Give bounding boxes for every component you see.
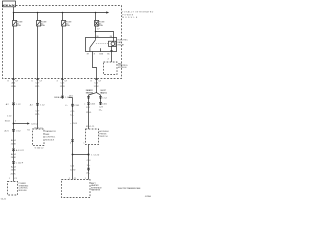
svg-text:HARNESS: HARNESS <box>91 189 101 192</box>
wire label fanlow <box>99 107 104 112</box>
wire col2 <box>37 79 39 130</box>
svg-text:12PK: 12PK <box>60 86 66 88</box>
wire relay coil to fan control module <box>111 52 113 63</box>
inline connector col1 C105 <box>6 103 22 106</box>
TIPM label text <box>122 11 154 20</box>
svg-text:4 -: 4 - <box>65 105 68 107</box>
relay coil <box>109 38 117 52</box>
wire label col1 lower <box>11 139 17 145</box>
svg-text:M 4-1 C1: M 4-1 C1 <box>86 126 95 128</box>
fuse F2 <box>37 13 39 21</box>
wire label nodeB lower <box>87 160 92 167</box>
svg-text:12DG: 12DG <box>86 112 92 114</box>
border pin col2 <box>32 79 43 83</box>
inline connector fanhigh A <box>87 96 89 99</box>
fuse F3 <box>62 13 64 21</box>
wire fan high branch <box>88 95 90 129</box>
svg-text:12PK: 12PK <box>94 86 100 88</box>
svg-text:CONTROL: CONTROL <box>45 137 56 139</box>
svg-text:1 C120: 1 C120 <box>91 155 100 157</box>
branch label fan high <box>86 89 94 94</box>
wire col3b <box>72 98 74 180</box>
svg-text:C105: C105 <box>74 105 80 107</box>
svg-text:FAN (LOW): FAN (LOW) <box>100 91 107 94</box>
svg-text:J02BA: J02BA <box>145 195 152 198</box>
wire label col1 lower2 <box>11 153 17 159</box>
wire fuse F1 to border pin <box>13 26 15 79</box>
svg-text:FAN (HIGH): FAN (HIGH) <box>86 91 94 94</box>
svg-text:s: s <box>83 142 84 144</box>
node col3b splice <box>72 154 74 156</box>
svg-text:20--: 20-- <box>86 172 90 174</box>
inline connector col1 D <box>12 161 24 164</box>
node bus-col4 <box>95 12 97 14</box>
svg-text:40A: 40A <box>17 24 21 27</box>
radiator fan control module box <box>33 129 45 146</box>
fan control module dashed box <box>104 62 118 75</box>
wire fan low branch <box>100 95 102 105</box>
relay bottom pin labels <box>87 52 111 60</box>
svg-text:G 104 C2: G 104 C2 <box>35 147 45 149</box>
branch label fan low <box>100 90 107 94</box>
AC switch caption <box>99 130 109 138</box>
RFCM caption <box>45 130 56 141</box>
relay pin 87 stub <box>100 48 102 51</box>
svg-text:20BK: 20BK <box>11 169 17 171</box>
node bus-col2 <box>37 12 39 14</box>
svg-text:50-21: 50-21 <box>1 198 7 200</box>
svg-text:30A: 30A <box>99 24 103 27</box>
wire label col4 circuit <box>94 83 100 88</box>
fan assembly caption <box>91 182 102 192</box>
svg-text:20BK: 20BK <box>11 144 17 146</box>
svg-text:+ C103: + C103 <box>70 123 78 125</box>
svg-text:MODULE: MODULE <box>122 17 138 19</box>
inline connector col3b B <box>71 139 73 142</box>
node bus-col3 <box>62 12 64 14</box>
node S104 <box>13 123 15 125</box>
power steering control module box <box>8 182 18 196</box>
bus arrow <box>106 11 109 13</box>
svg-text:87A: 87A <box>99 52 103 55</box>
svg-text:A 4-1 C2: A 4-1 C2 <box>16 149 25 152</box>
node A relay feed <box>95 31 97 33</box>
relay mechanical link <box>96 43 109 45</box>
inline connector fanhigh B <box>84 102 96 105</box>
wire node A to relay coil pin <box>96 32 114 38</box>
AC pressure switch box <box>86 129 99 145</box>
wire label col1 circuit <box>11 82 17 88</box>
svg-text:RELAY: RELAY <box>118 44 125 47</box>
svg-text:C 120 F: C 120 F <box>16 163 24 165</box>
svg-text:20BK: 20BK <box>11 174 17 176</box>
wire col1 upper <box>13 79 15 124</box>
svg-text:12RD: 12RD <box>70 169 76 171</box>
radiator fan assembly box <box>62 180 91 198</box>
inline connector col1 B <box>5 129 22 132</box>
inline connector nodeB <box>87 168 89 171</box>
svg-text:MODULE: MODULE <box>45 139 54 141</box>
svg-text:POWER: POWER <box>122 14 134 16</box>
wire from BATT box to bus <box>13 7 15 21</box>
svg-text:SWITCH: SWITCH <box>99 136 108 138</box>
wire label col1 lower3 <box>11 165 17 171</box>
wire col3b splice to AC node <box>73 154 89 156</box>
svg-text:40A: 40A <box>66 24 70 27</box>
wire fuse F2 to border pin <box>37 26 39 79</box>
inline connector col3 <box>54 96 70 99</box>
border pin col1 <box>8 79 19 83</box>
node bus-col1 <box>13 12 15 14</box>
fuse F1 <box>13 13 15 21</box>
relay K1 box <box>86 38 117 52</box>
svg-text:x: x <box>84 104 85 106</box>
wire AC switch to node B <box>88 145 90 155</box>
svg-text:C105: C105 <box>102 103 108 105</box>
svg-text:40A: 40A <box>41 24 45 27</box>
wire fuse F3 to connector <box>62 26 64 98</box>
inline connector col1 C <box>12 149 24 152</box>
svg-text:FAN: FAN <box>45 133 50 136</box>
border pin col3 <box>57 79 68 83</box>
svg-text:RADIATOR: RADIATOR <box>45 130 56 133</box>
fan control caption <box>118 62 129 69</box>
splice label S104 <box>5 115 17 122</box>
inline connector fanlow B <box>99 102 107 105</box>
wire col1 lower <box>13 124 15 182</box>
svg-text:20BK: 20BK <box>11 157 17 159</box>
inline connector fanlow A <box>99 96 107 99</box>
wire label col2 circuit <box>35 83 41 88</box>
wire label col3b <box>70 111 75 116</box>
wire label col3b lower <box>70 165 76 171</box>
wire relay pin87 to border (L jog) <box>93 52 97 79</box>
svg-text:MIKA HI: MIKA HI <box>54 96 62 99</box>
TIPM module dashed box <box>3 6 122 79</box>
svg-text:MODULE: MODULE <box>118 67 127 69</box>
svg-text:C105: C105 <box>90 104 96 106</box>
wire label col2 lower <box>35 110 41 115</box>
svg-text:12--: 12-- <box>87 165 91 167</box>
border pin col4 <box>91 79 102 83</box>
inline connector col3b <box>65 104 80 107</box>
wire label fanhigh <box>86 107 92 114</box>
wire label col3 circuit <box>60 83 66 88</box>
svg-text:1 ELECTRIC TRANSFER CASE: 1 ELECTRIC TRANSFER CASE <box>118 187 142 190</box>
pin label PSCM <box>9 178 18 180</box>
svg-text:TOTALLY INTEGRATED: TOTALLY INTEGRATED <box>122 11 154 14</box>
wire col3b start tick <box>69 97 73 99</box>
inline connector col2 <box>30 103 46 106</box>
svg-text:12--: 12-- <box>99 109 103 111</box>
svg-text:MODULE: MODULE <box>19 190 28 192</box>
wire branch S104 arrow <box>14 122 39 125</box>
relay switch blade <box>90 38 96 52</box>
pin label fan box left <box>69 178 77 180</box>
fan feed split <box>89 79 101 96</box>
bus wire <box>14 12 107 14</box>
PSCM caption <box>19 183 29 192</box>
wire breaker CB1 to node A <box>95 26 97 38</box>
circuit breaker CB1 <box>95 13 97 21</box>
relay caption ELECTRIC FAN RELAY <box>118 40 129 47</box>
wire node B to fan assembly <box>88 155 90 180</box>
svg-text:BATT A0: BATT A0 <box>3 3 15 6</box>
node B <box>87 153 89 155</box>
battery feed box BATT A0 <box>3 1 16 7</box>
svg-text:12--: 12-- <box>70 114 74 116</box>
